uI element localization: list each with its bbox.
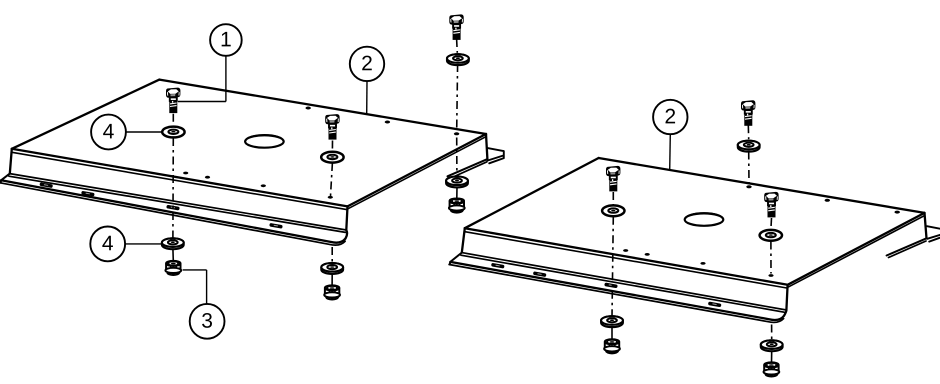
right plate front edge xyxy=(465,228,788,285)
right plate right edge (double) xyxy=(788,213,925,285)
centerline through plate (left col1) xyxy=(172,138,174,238)
washer 4 below plate (left col1) xyxy=(162,238,184,249)
centerline through plate (right col1) xyxy=(612,217,613,317)
left plate rear edge xyxy=(159,80,486,134)
centerline bolt1-washer (left col1) xyxy=(172,114,174,126)
right plate lip slot 4 xyxy=(708,301,722,307)
left plate front edge xyxy=(12,149,348,207)
left plate rear hole 2 xyxy=(385,121,390,124)
right plate front hole 3 xyxy=(700,262,705,265)
washer above plate (left col3) xyxy=(447,54,469,65)
left plate lip slot 4 xyxy=(269,223,283,229)
right plate rear hole 3 xyxy=(895,211,900,214)
left plate front face right edge xyxy=(346,206,347,230)
callout balloon 1 xyxy=(210,24,242,56)
left plate front hole 2 xyxy=(205,176,210,179)
left plate lip left edge xyxy=(1,174,10,183)
left plate lip slot 2 xyxy=(81,191,95,197)
centerline below lip (right col2) xyxy=(771,325,773,340)
right plate lip slot 3 xyxy=(604,282,618,288)
right plate front face left edge xyxy=(462,228,465,252)
washer on plate (right col1) xyxy=(602,205,624,216)
flange nut (left col3) xyxy=(449,199,465,213)
flange nut (right col2) xyxy=(764,363,780,377)
left plate left edge xyxy=(12,80,160,149)
centerline bolt-washer (right col2) xyxy=(770,218,773,230)
left plate body fill xyxy=(1,80,487,242)
leader callout 2 right xyxy=(669,134,672,170)
centerline below lip (left col2) xyxy=(331,247,333,263)
leader callout 1 horizontal xyxy=(178,101,226,103)
right plate front hole 2 xyxy=(645,253,650,256)
right plate lip slot 2 xyxy=(533,271,547,277)
right plate front face right edge xyxy=(786,285,787,310)
line washer-nut (left col2) xyxy=(331,273,333,286)
centerline washer-hole (right col2) xyxy=(770,242,772,274)
right plate large center hole xyxy=(685,213,724,225)
right plate left edge xyxy=(465,158,599,228)
washer on plate (left col2) xyxy=(321,152,343,163)
left plate lip slot 3 xyxy=(166,205,180,211)
leader callout 1 vertical xyxy=(225,56,227,102)
callout balloon 2 (right) xyxy=(653,100,687,134)
right plate: mounting plate (item 2) xyxy=(449,158,940,322)
callout balloon 4 (top) xyxy=(91,115,126,150)
leader callout 4 top xyxy=(126,131,162,133)
washer below plate (left col3) xyxy=(446,177,468,188)
hex bolt (left col3) xyxy=(449,14,463,39)
right plate front hole 4 xyxy=(768,274,773,277)
left plate front bend line xyxy=(11,152,347,209)
right plate rear hole 1 xyxy=(746,185,751,188)
left plate large center hole xyxy=(245,135,284,147)
washer below plate (right col2) xyxy=(761,340,783,351)
centerline hole-washer (left col3) xyxy=(456,138,458,175)
callout balloon 4 (bottom) xyxy=(90,227,125,262)
washer above plate (right col3) xyxy=(738,141,760,152)
leader callout 3 horizontal xyxy=(183,269,207,271)
left plate front hole 3 xyxy=(261,184,266,187)
left plate rear hole 1 xyxy=(306,107,311,110)
right plate rear-corner flange xyxy=(925,213,927,238)
right plate side tab xyxy=(927,226,940,241)
right plate front hole 1 xyxy=(623,249,628,252)
right plate lip outer edge xyxy=(450,262,786,320)
left plate lip outer edge xyxy=(1,180,347,242)
washer below plate (right col1) xyxy=(601,316,623,327)
flange nut 3 (left col1) xyxy=(165,261,181,275)
flange nut (left col2) xyxy=(324,286,340,300)
leader callout 2 left xyxy=(366,81,368,114)
line washer-nut (right col1) xyxy=(611,327,613,340)
left plate side tab xyxy=(487,148,504,163)
hex bolt (right col2) xyxy=(764,192,778,217)
left plate front hole 1 xyxy=(183,172,188,175)
right plate lip thickness line xyxy=(449,265,783,323)
centerline washer-hole (right col3) xyxy=(748,152,750,185)
washer on plate (right col2) xyxy=(760,230,782,241)
right plate body fill xyxy=(450,158,926,319)
right plate rear hole 2 xyxy=(825,199,830,202)
right plate front bend line xyxy=(464,232,787,288)
centerline washer-hole (left col2) xyxy=(331,163,333,196)
left plate rear-corner flange xyxy=(486,134,487,159)
callout balloon 2 (left) xyxy=(350,47,384,81)
right plate front face bottom bend (double) xyxy=(462,253,787,310)
centerline bolt-washer (right col3) xyxy=(747,125,749,139)
callout balloon 3 xyxy=(190,304,225,339)
centerline washer-hole (left col3) xyxy=(456,64,459,130)
bolt 1 (hex bolt, left col1) xyxy=(166,88,180,114)
right plate rear edge xyxy=(599,158,925,213)
left plate front hole 4 xyxy=(328,196,333,199)
left plate lip slot 1 xyxy=(39,182,53,188)
flange nut (right col1) xyxy=(604,339,620,353)
leader callout 3 vertical xyxy=(206,270,208,304)
line washer-nut (left col1) xyxy=(172,249,174,262)
hex bolt (right col3) xyxy=(741,100,755,126)
line washer-nut (left col3) xyxy=(456,187,458,199)
left plate front face bottom bend (double) xyxy=(10,174,347,230)
hex bolt (right col1) xyxy=(606,166,620,191)
centerline bolt-washer (left col3) xyxy=(456,39,459,53)
centerline bolt-washer (right col1) xyxy=(612,192,614,205)
washer 4 on plate (left col1) xyxy=(162,127,184,138)
line washer-nut (right col2) xyxy=(771,351,773,364)
left plate front face left edge xyxy=(10,149,12,174)
right plate lip left edge xyxy=(450,253,462,265)
centerline bolt2-washer (left col2) xyxy=(331,141,333,152)
washer below plate (left col2) xyxy=(321,263,343,274)
hex bolt (left col2) xyxy=(325,114,339,140)
right plate lip slot 1 xyxy=(491,263,505,269)
left plate: mounting plate (item 2) xyxy=(0,80,504,246)
left plate lip thickness line xyxy=(0,183,345,245)
leader callout 4 bottom xyxy=(125,243,161,245)
left plate right edge (double) xyxy=(348,134,487,206)
left plate rear hole 3 xyxy=(454,132,459,135)
